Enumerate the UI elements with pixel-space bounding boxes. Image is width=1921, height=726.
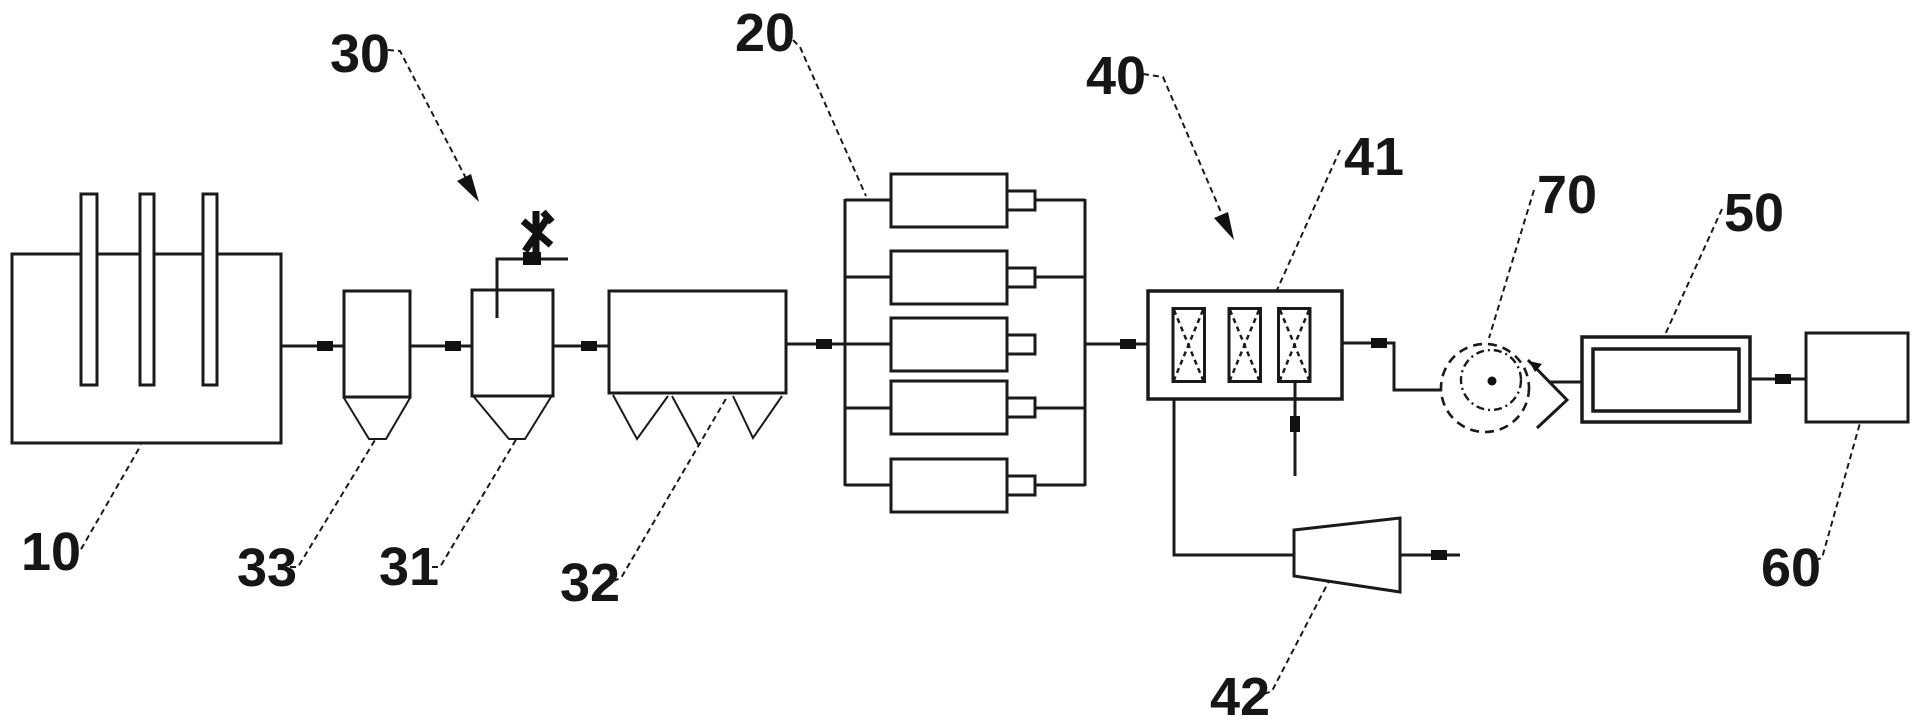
leader 40 with arrow: [1143, 74, 1226, 224]
hopper 33 funnel: [344, 398, 410, 439]
roller 3 of bank 20: [891, 318, 1035, 371]
wire dryer 41 to fan 70: [1342, 343, 1442, 390]
arrowhead 40: [1214, 212, 1234, 240]
leader 33: [290, 440, 375, 567]
valve block on feed pipe: [523, 252, 541, 265]
fan 70 housing: [1441, 344, 1529, 432]
hopper 31 body: [472, 290, 553, 396]
roller 5 of bank 20: [845, 459, 1085, 512]
svg-text:42: 42: [1210, 667, 1270, 726]
vent line below heater 3: [1294, 382, 1297, 476]
leader 60: [1815, 423, 1860, 560]
leader 20: [793, 40, 866, 196]
svg-text:40: 40: [1086, 46, 1146, 106]
leader 32: [613, 397, 727, 581]
flow arrow into dryer 41: [1120, 339, 1136, 349]
leader 70: [1489, 190, 1534, 338]
wire screen32 to roller bank: [786, 343, 891, 346]
svg-text:33: 33: [237, 538, 297, 598]
flow arrow on wire 32-20: [816, 339, 832, 349]
wire box50 to box60: [1750, 378, 1806, 381]
leader 50: [1664, 209, 1722, 337]
collector box 50 outer: [1582, 337, 1750, 422]
flow arrow on wire 10-33: [317, 341, 333, 351]
leader 42: [1264, 581, 1329, 694]
wire tank10 to hopper33: [281, 345, 344, 348]
arrowhead 30: [457, 174, 479, 202]
electrode plate 1 of tank 10: [81, 194, 97, 385]
fan 70 outlet cone: [1528, 360, 1567, 428]
roller bank 20 right manifold: [1084, 199, 1087, 486]
flow arrow on wire 33-31: [445, 341, 461, 351]
leader 41: [1277, 150, 1340, 290]
electrode plate 2 of tank 10: [140, 194, 154, 385]
flow arrow after turbine: [1431, 550, 1447, 560]
leader 30 with arrow: [388, 50, 470, 186]
roller 4 of bank 20: [845, 381, 1085, 434]
wire hopper33 to hopper31: [410, 345, 472, 348]
flow arrow 50-60: [1775, 374, 1791, 384]
agitator symbol above feed pipe: [523, 211, 552, 255]
wire bank to dryer 41: [1085, 343, 1148, 346]
svg-text:60: 60: [1761, 538, 1821, 598]
leader 31: [432, 438, 517, 567]
hopper 31 funnel: [474, 397, 551, 439]
fan 70 impeller circle: [1461, 350, 1521, 410]
feed pipe into hopper 31: [497, 259, 568, 318]
collector box 50 inner: [1593, 349, 1739, 411]
flow arrow on vent line: [1290, 416, 1300, 432]
wire fan to box 50: [1550, 381, 1583, 384]
svg-text:41: 41: [1344, 127, 1404, 187]
svg-text:32: 32: [560, 553, 620, 613]
tank 10: [12, 254, 281, 443]
flow arrow on wire 31-32: [581, 341, 597, 351]
roller bank 20 left manifold: [844, 199, 847, 486]
box 60: [1806, 333, 1908, 422]
wire out of turbine 42: [1400, 554, 1460, 557]
duct from dryer down to turbine 42: [1174, 399, 1294, 555]
roller 2 of bank 20: [845, 251, 1085, 304]
heater element 2: [1229, 309, 1261, 382]
hopper 33 body: [344, 291, 410, 397]
heater element 1: [1173, 309, 1205, 382]
heater element 3: [1279, 309, 1311, 382]
svg-text:70: 70: [1537, 165, 1597, 225]
leader 10: [72, 445, 141, 551]
fan outlet arrowhead: [1529, 361, 1542, 372]
fan 70 hub dot: [1488, 377, 1497, 386]
screen 32 tooth 2: [672, 396, 699, 446]
screen 32 body: [609, 291, 786, 393]
roller 1 of bank 20: [845, 174, 1085, 227]
flow arrow out of dryer: [1371, 338, 1387, 348]
screen 32 tooth 3: [733, 396, 782, 438]
wire hopper31 to screen32: [553, 345, 609, 348]
turbine 42: [1294, 518, 1400, 592]
screen 32 tooth 1: [613, 395, 668, 439]
svg-text:50: 50: [1724, 183, 1784, 243]
dryer box 41: [1148, 291, 1342, 399]
electrode plate 3 of tank 10: [203, 194, 217, 385]
svg-text:20: 20: [735, 3, 795, 63]
svg-text:31: 31: [379, 537, 439, 597]
svg-text:30: 30: [330, 24, 390, 84]
